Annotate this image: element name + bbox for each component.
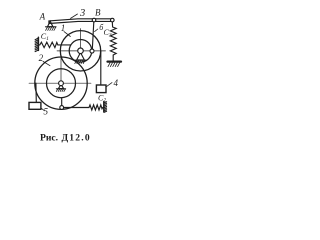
leader for 2 [43,61,50,65]
leader for 6 [95,29,98,32]
leader for 5 [41,108,44,110]
cord from pulley 2 left rim down to box 5 [35,83,37,102]
pulley 1 vertical centerline [80,29,82,51]
spring C2 horizontal [64,105,104,110]
wall anchor C2 hatching [104,102,106,113]
box 4 [96,85,106,93]
leader for 4 [106,83,112,87]
hinge ring C2 [60,106,64,110]
pin support pulley 1 hatching [75,60,85,63]
pulley 1 horizontal centerline [57,50,106,52]
cord from pulley 1 right rim down to box 4 [100,51,102,85]
leader for 1 [64,32,70,37]
ground plate under C3 [108,60,122,62]
hinge B on beam [92,18,96,22]
hinge at beam right end [111,18,115,22]
hinge on pulley 1 inner rim (rod 6 attach) [90,49,94,53]
pulley 2 vertical centerline [60,58,62,83]
rod 6 from B down to pulley 1 rim [92,22,94,50]
pin support pulley 1 base [75,59,87,61]
pin support A triangle [48,21,53,27]
box 5 [29,102,41,109]
svg-text:1: 1 [61,23,66,33]
pin support pulley 2 base [56,88,65,90]
svg-text:А: А [39,12,46,22]
svg-text:В: В [95,7,101,17]
svg-text:4: 4 [114,78,119,88]
wall anchor C2 [103,102,105,113]
pin support A base line [46,26,57,28]
beam 3 (double line) [49,19,114,24]
cord from pulley 2 inner bottom to C2 hinge [61,98,63,106]
pulley 2 hub [59,81,64,86]
svg-text:Д12.0: Д12.0 [62,132,91,143]
pulley 2 outer circle [35,57,87,109]
pulley 1 hub [78,48,84,54]
svg-text:5: 5 [44,107,49,117]
svg-text:Рис.: Рис. [40,132,58,143]
pulley 1 outer circle [60,31,100,71]
pin support pulley 2 triangle [58,84,63,88]
wall anchor C1 hatching [35,38,38,51]
pulley 1 inner circle [69,40,92,63]
svg-text:3: 3 [79,8,85,19]
spring C3 vertical [110,22,116,61]
pin support pulley 1 triangle [77,53,85,61]
leader for 3 [71,14,78,18]
pin support A hatching [46,27,56,30]
pulley 2 inner circle [47,69,76,98]
spring C1 horizontal [39,42,71,47]
ground plate hatching [108,63,120,67]
pin support pulley 2 hatching [56,89,65,92]
pulley 2 horizontal centerline [29,82,91,84]
wall anchor C1 [37,37,39,50]
